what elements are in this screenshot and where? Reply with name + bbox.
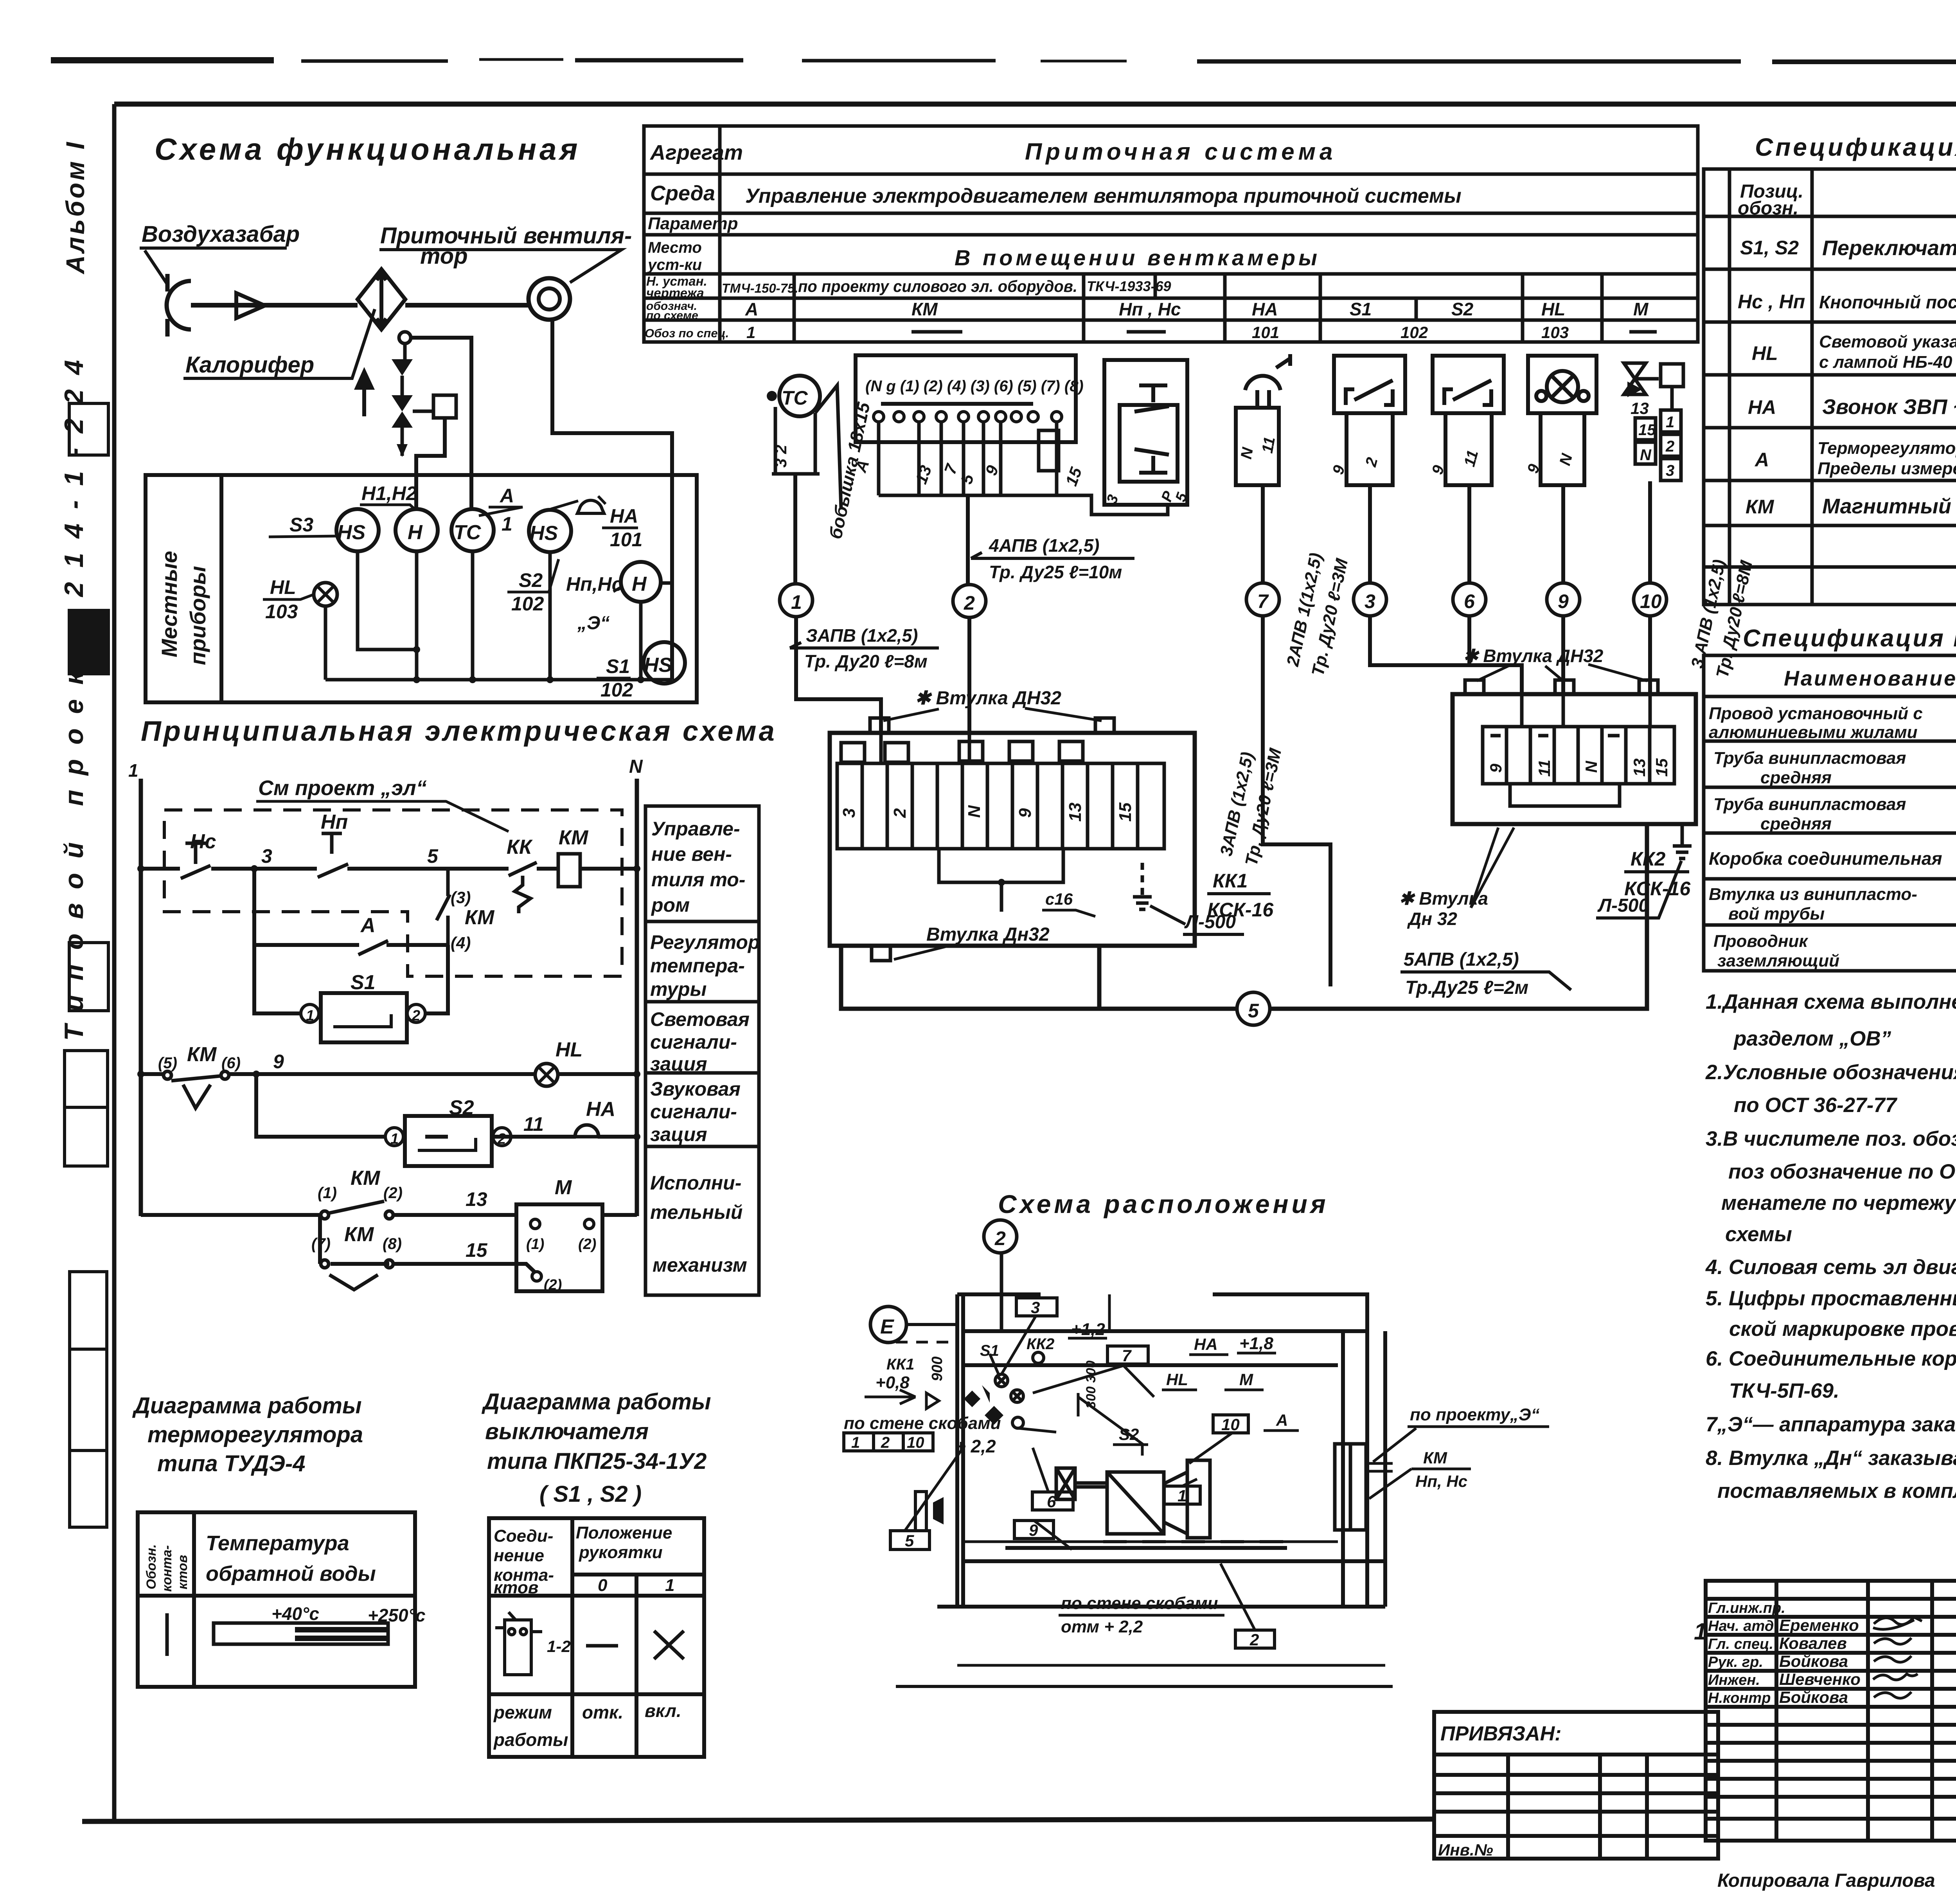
svg-text:Обозн.: Обозн. bbox=[144, 1544, 159, 1589]
svg-text:НА: НА bbox=[610, 505, 638, 527]
svg-text:15: 15 bbox=[1638, 421, 1656, 439]
dashed wall line bbox=[896, 1341, 957, 1344]
svg-text:Бойкова: Бойкова bbox=[1779, 1688, 1848, 1706]
instrument TC bbox=[451, 509, 494, 551]
svg-text:1: 1 bbox=[502, 513, 512, 535]
svg-text:Втулка Дн32: Втулка Дн32 bbox=[926, 924, 1050, 945]
svg-text:2: 2 bbox=[497, 1131, 506, 1147]
plan equipment: fan unit bbox=[1075, 1460, 1210, 1538]
svg-text:Ковалев: Ковалев bbox=[1779, 1634, 1847, 1652]
svg-text:туры: туры bbox=[650, 978, 707, 1000]
ground symbol KK2 bbox=[1673, 824, 1692, 858]
svg-text:чертежа: чертежа bbox=[646, 286, 704, 300]
svg-text:по проекту силового эл. оборуд: по проекту силового эл. оборудов. bbox=[798, 277, 1077, 295]
svg-text:КМ: КМ bbox=[559, 826, 589, 849]
svg-text:зация: зация bbox=[650, 1123, 707, 1145]
svg-text:3: 3 bbox=[261, 845, 272, 867]
fan wire bbox=[552, 320, 672, 680]
svg-text:Переключатель ПКП 25-34-1У2: Переключатель ПКП 25-34-1У2 bbox=[1822, 236, 1956, 260]
svg-text:конта-: конта- bbox=[160, 1545, 174, 1592]
boxed callout 2 bbox=[1235, 1630, 1275, 1648]
svg-text:КМ: КМ bbox=[465, 906, 495, 929]
signature squiggles bbox=[1873, 1617, 1922, 1698]
svg-text:См проект „эл“: См проект „эл“ bbox=[258, 776, 427, 800]
svg-text:1: 1 bbox=[746, 323, 755, 342]
svg-text:Бойкова: Бойкова bbox=[1779, 1652, 1848, 1670]
svg-text:Пределы измерения 0-250°с т: Пределы измерения 0-250°с типаТУДЭ-4 bbox=[1818, 459, 1956, 478]
svg-text:101: 101 bbox=[1252, 323, 1279, 342]
svg-text:(2): (2) bbox=[383, 1184, 403, 1202]
svg-text:нение: нение bbox=[494, 1546, 544, 1565]
svg-text:Управле-: Управле- bbox=[651, 818, 740, 840]
svg-text:по ОСТ 36-27-77: по ОСТ 36-27-77 bbox=[1734, 1094, 1898, 1117]
svg-text:Магнитный пускатель: Магнитный пускатель bbox=[1822, 495, 1956, 518]
svg-text:H1,H2: H1,H2 bbox=[361, 482, 417, 504]
svg-text:Нп, Нс: Нп, Нс bbox=[1415, 1472, 1467, 1490]
circled 2 bbox=[953, 585, 986, 617]
label Приточный вентилятор bbox=[379, 223, 632, 283]
svg-text:4АПВ (1х2,5): 4АПВ (1х2,5) bbox=[989, 535, 1100, 556]
walls bbox=[937, 1294, 1385, 1665]
svg-text:А: А bbox=[745, 299, 758, 319]
svg-text:А: А bbox=[499, 485, 514, 507]
sensor TC bbox=[779, 376, 820, 416]
svg-text:Местные: Местные bbox=[157, 551, 182, 657]
svg-text:НА: НА bbox=[1252, 299, 1278, 319]
pushbutton station box bbox=[1104, 360, 1187, 505]
svg-text:H: H bbox=[408, 521, 423, 544]
svg-text:11: 11 bbox=[1259, 436, 1279, 455]
svg-text:4. Силовая сеть эл двигателя: 4. Силовая сеть эл двигателя вентилятора… bbox=[1705, 1256, 1956, 1279]
check valve triangle bbox=[392, 359, 413, 376]
svg-text:5: 5 bbox=[427, 845, 439, 867]
svg-text:Световая: Световая bbox=[650, 1008, 750, 1030]
svg-text:9: 9 bbox=[273, 1051, 284, 1073]
svg-text:Регулятор: Регулятор bbox=[650, 931, 760, 953]
svg-text:3: 3 bbox=[1031, 1298, 1040, 1317]
svg-text:ТКЧ-1933-69: ТКЧ-1933-69 bbox=[1087, 278, 1171, 294]
svg-text:3.В числителе поз. обозначени: 3.В числителе поз. обозначения средств а… bbox=[1706, 1127, 1956, 1150]
svg-text:102: 102 bbox=[1400, 323, 1428, 342]
svg-text:Коробка соединительная: Коробка соединительная bbox=[1709, 848, 1942, 869]
svg-text:Температура: Температура bbox=[206, 1531, 349, 1555]
svg-text:типа ТУДЭ-4: типа ТУДЭ-4 bbox=[157, 1451, 305, 1476]
node 9 bbox=[253, 1071, 260, 1078]
svg-text:ктов: ктов bbox=[494, 1578, 538, 1597]
svg-text:по схеме: по схеме bbox=[646, 309, 698, 322]
svg-text:сигнали-: сигнали- bbox=[650, 1101, 737, 1123]
boxed callout 1 bbox=[1164, 1486, 1200, 1504]
control valve bowtie bbox=[392, 395, 413, 428]
svg-text:Место: Место bbox=[648, 239, 702, 256]
svg-text:N: N bbox=[629, 756, 643, 777]
svg-text:( S1 , S2 ): ( S1 , S2 ) bbox=[539, 1481, 642, 1507]
function labels column bbox=[645, 806, 759, 1295]
valve actuator bbox=[433, 395, 456, 418]
svg-text:по проекту„Э“: по проекту„Э“ bbox=[1410, 1405, 1540, 1424]
svg-text:КМ: КМ bbox=[344, 1223, 374, 1246]
box Местные приборы bbox=[146, 475, 697, 702]
switch S1 device box bbox=[1334, 356, 1405, 485]
bushing rects bbox=[870, 718, 1114, 961]
svg-text:М: М bbox=[1239, 1370, 1253, 1389]
svg-text:ТС: ТС bbox=[454, 521, 482, 544]
axis circle E bbox=[870, 1307, 906, 1343]
svg-text:(1): (1) bbox=[526, 1236, 544, 1253]
rung 1 wire bbox=[141, 867, 637, 871]
svg-text:1: 1 bbox=[390, 1131, 399, 1147]
svg-text:13: 13 bbox=[1631, 399, 1649, 418]
svg-text:(5): (5) bbox=[158, 1055, 177, 1072]
svg-text:КК2: КК2 bbox=[1027, 1335, 1054, 1353]
svg-text:S1, S2: S1, S2 bbox=[1740, 237, 1799, 259]
svg-text:по стене скобами: по стене скобами bbox=[844, 1414, 1001, 1433]
svg-text:НА: НА bbox=[586, 1098, 615, 1121]
jumper below strip bbox=[939, 849, 1063, 882]
svg-text:сигнали-: сигнали- bbox=[650, 1031, 737, 1053]
svg-text:Инжен.: Инжен. bbox=[1708, 1672, 1760, 1688]
terminal strip inside KK1 bbox=[837, 741, 1164, 849]
svg-text:ктов: ктов bbox=[175, 1555, 190, 1589]
svg-text:1: 1 bbox=[1666, 414, 1674, 431]
svg-text:разделом „ОВ”: разделом „ОВ” bbox=[1733, 1027, 1891, 1050]
left power rail bbox=[139, 779, 143, 1216]
svg-text:103: 103 bbox=[265, 601, 298, 623]
instrument HS (S3) bbox=[336, 509, 379, 551]
svg-text:ТМЧ-150-75.: ТМЧ-150-75. bbox=[722, 281, 798, 295]
instrument HS (S1) bbox=[644, 642, 685, 684]
svg-text:Положение: Положение bbox=[576, 1523, 672, 1542]
svg-text:(7): (7) bbox=[311, 1235, 331, 1253]
svg-text:с16: с16 bbox=[1045, 890, 1073, 908]
svg-text:КМ: КМ bbox=[351, 1167, 381, 1190]
svg-text:1: 1 bbox=[1178, 1486, 1187, 1505]
svg-text:А: А bbox=[1276, 1411, 1288, 1429]
wires from circles 3,6,9,10 down bbox=[1263, 616, 1650, 986]
svg-text:15: 15 bbox=[1116, 803, 1135, 822]
rung 2 bbox=[141, 1072, 637, 1076]
instrument wires bbox=[325, 551, 672, 680]
svg-text:Исполни-: Исполни- bbox=[650, 1172, 741, 1194]
svg-text:Терморегулятор дилатометричес: Терморегулятор дилатометрический bbox=[1818, 439, 1956, 458]
switch S2 device box bbox=[1433, 356, 1504, 485]
svg-text:(2): (2) bbox=[578, 1236, 596, 1253]
plan equipment: heater box bbox=[1056, 1468, 1075, 1499]
terminal strip KK2 bbox=[1483, 694, 1674, 806]
boxed callout 9 bbox=[1014, 1521, 1054, 1539]
valve drain line bbox=[401, 428, 404, 456]
svg-text:2.Условные обозначения в сх: 2.Условные обозначения в схемах автомати… bbox=[1705, 1061, 1956, 1084]
bottom wire run with circled 5 bbox=[841, 824, 1647, 1009]
circled 5 bbox=[1237, 992, 1270, 1025]
svg-text:М: М bbox=[1633, 299, 1649, 319]
valve stem circle bbox=[399, 332, 411, 344]
main title block bbox=[1706, 1581, 1956, 1841]
svg-text:7: 7 bbox=[1257, 590, 1269, 612]
svg-text:7: 7 bbox=[1122, 1346, 1132, 1365]
svg-text:(2): (2) bbox=[544, 1277, 562, 1293]
svg-text:КМ: КМ bbox=[1746, 496, 1774, 518]
svg-text:1: 1 bbox=[128, 760, 138, 781]
svg-text:работы: работы bbox=[493, 1729, 568, 1750]
svg-text:Звуковая: Звуковая bbox=[650, 1078, 741, 1100]
wire stem to TC drop bbox=[411, 338, 471, 509]
svg-text:Нп: Нп bbox=[321, 811, 348, 833]
svg-text:6: 6 bbox=[1464, 590, 1475, 612]
svg-text:0: 0 bbox=[598, 1576, 608, 1595]
left margin fold boxes bbox=[65, 403, 108, 1527]
svg-text:5АПВ (1х2,5): 5АПВ (1х2,5) bbox=[1404, 949, 1519, 970]
svg-text:1: 1 bbox=[1694, 1618, 1707, 1645]
svg-text:N: N bbox=[965, 805, 984, 818]
svg-text:Звонок ЗВП ~220 В: Звонок ЗВП ~220 В bbox=[1822, 395, 1956, 419]
svg-text:(6): (6) bbox=[221, 1055, 241, 1072]
svg-text:Агрегат: Агрегат bbox=[649, 141, 743, 164]
svg-text:ТС: ТС bbox=[782, 387, 808, 409]
svg-text:выключателя: выключателя bbox=[485, 1419, 649, 1444]
svg-text:13: 13 bbox=[1630, 758, 1649, 777]
svg-text:2: 2 bbox=[412, 1008, 420, 1024]
svg-text:13: 13 bbox=[1066, 803, 1085, 822]
svg-text:„Э“: „Э“ bbox=[577, 613, 610, 633]
svg-text:+250°с: +250°с bbox=[368, 1605, 426, 1625]
plan equipment: intake bbox=[933, 1497, 944, 1524]
svg-text:Схема расположения: Схема расположения bbox=[998, 1190, 1329, 1218]
valve with actuator (top right) bbox=[1624, 363, 1683, 410]
svg-text:N: N bbox=[1582, 760, 1600, 773]
svg-text:900: 900 bbox=[929, 1357, 946, 1381]
svg-text:1.Данная схема выполнена на: 1.Данная схема выполнена на основании за… bbox=[1706, 990, 1956, 1013]
svg-text:Управление электродвигателем: Управление электродвигателем вентилятора… bbox=[745, 185, 1462, 207]
svg-text:алюминиевыми жилами: алюминиевыми жилами bbox=[1709, 723, 1918, 742]
svg-text:КМ: КМ bbox=[187, 1043, 217, 1066]
svg-text:Приточная система: Приточная система bbox=[1025, 139, 1336, 165]
svg-text:КСК-16: КСК-16 bbox=[1207, 899, 1274, 921]
svg-text:менателе по чертежу принцип: менателе по чертежу принципиальной элект… bbox=[1721, 1191, 1956, 1215]
svg-text:2: 2 bbox=[1665, 438, 1674, 455]
svg-text:10: 10 bbox=[1640, 590, 1662, 612]
svg-text:вой трубы: вой трубы bbox=[1728, 904, 1825, 923]
svg-text:S1: S1 bbox=[606, 655, 630, 677]
svg-text:1: 1 bbox=[851, 1434, 860, 1451]
svg-text:Дн 32: Дн 32 bbox=[1407, 909, 1457, 929]
svg-text:уст-ки: уст-ки bbox=[647, 256, 702, 274]
svg-text:+0,8: +0,8 bbox=[876, 1373, 910, 1392]
riser wire circled 2 above plan bbox=[1000, 1253, 1003, 1331]
terminal box КМ panel bbox=[856, 355, 1076, 442]
bell device bbox=[1236, 354, 1290, 485]
svg-text:КМ: КМ bbox=[1423, 1449, 1447, 1467]
circled 3 bbox=[1354, 583, 1386, 616]
svg-text:Обоз по спец.: Обоз по спец. bbox=[645, 326, 729, 340]
svg-text:+40°с: +40°с bbox=[271, 1603, 319, 1624]
svg-text:Альбом I: Альбом I bbox=[61, 140, 90, 275]
svg-text:Калорифер: Калорифер bbox=[185, 352, 314, 378]
svg-text:Спецификация на монтажные м: Спецификация на монтажные материалы bbox=[1743, 625, 1956, 652]
svg-text:отк.: отк. bbox=[582, 1702, 623, 1722]
svg-text:ЗАПВ (1х2,5): ЗАПВ (1х2,5) bbox=[806, 625, 918, 646]
svg-text:Соеди-: Соеди- bbox=[494, 1526, 553, 1546]
svg-text:Нс , Нп: Нс , Нп bbox=[1738, 291, 1805, 313]
svg-text:Тр.Ду25 ℓ=2м: Тр.Ду25 ℓ=2м bbox=[1405, 977, 1528, 998]
svg-text:HS: HS bbox=[337, 521, 366, 544]
svg-text:2: 2 bbox=[1249, 1630, 1259, 1649]
svg-text:Нп , Нс: Нп , Нс bbox=[1119, 299, 1181, 319]
svg-text:Нач. атд: Нач. атд bbox=[1708, 1618, 1774, 1634]
svg-text:Копировала Гаврилова: Копировала Гаврилова bbox=[1717, 1870, 1935, 1891]
svg-text:Труба винипластовая: Труба винипластовая bbox=[1713, 749, 1906, 768]
svg-text:9: 9 bbox=[1487, 763, 1505, 773]
svg-text:+1,2: +1,2 bbox=[1071, 1320, 1105, 1339]
svg-text:заземляющий: заземляющий bbox=[1717, 951, 1839, 970]
svg-text:КК1: КК1 bbox=[1213, 870, 1248, 892]
svg-text:(8): (8) bbox=[383, 1235, 402, 1253]
svg-text:средняя: средняя bbox=[1760, 814, 1832, 833]
svg-text:Е: Е bbox=[880, 1316, 894, 1338]
small triangle marker left bbox=[926, 1393, 939, 1409]
svg-text:ПРИВЯЗАН:: ПРИВЯЗАН: bbox=[1440, 1722, 1562, 1745]
node 3 bbox=[251, 865, 258, 872]
svg-text:средняя: средняя bbox=[1760, 768, 1832, 787]
svg-text:+ 2,2: + 2,2 bbox=[955, 1436, 996, 1456]
ground symbol KK1 bbox=[1133, 863, 1152, 909]
svg-text:HL: HL bbox=[270, 576, 296, 598]
svg-text:М: М bbox=[555, 1176, 572, 1199]
svg-text:ТКЧ-5П-69.: ТКЧ-5П-69. bbox=[1729, 1379, 1839, 1402]
fan double circle bbox=[529, 278, 570, 320]
svg-text:тор: тор bbox=[420, 243, 468, 269]
svg-text:9: 9 bbox=[1016, 808, 1035, 818]
svg-text:102: 102 bbox=[600, 679, 633, 701]
svg-text:S2: S2 bbox=[1451, 299, 1474, 319]
svg-text:А: А bbox=[1754, 449, 1769, 471]
boxed callout 6 bbox=[1032, 1492, 1073, 1510]
svg-text:5. Цифры проставленные в ско: 5. Цифры проставленные в скобках, соотве… bbox=[1706, 1287, 1956, 1310]
svg-text:поз обозначение по ОСТ 36-2: поз обозначение по ОСТ 36-27-77 или по Г… bbox=[1728, 1160, 1956, 1183]
svg-text:режим: режим bbox=[493, 1702, 552, 1722]
plan leader lines bbox=[905, 1316, 1393, 1630]
svg-text:Параметр: Параметр bbox=[648, 214, 738, 233]
svg-text:Шевченко: Шевченко bbox=[1779, 1670, 1861, 1688]
wire 1 to junction box bbox=[796, 617, 881, 733]
label Калорифер bbox=[183, 309, 375, 378]
svg-text:H: H bbox=[632, 573, 647, 596]
привязан box bbox=[1434, 1712, 1718, 1859]
svg-text:КК: КК bbox=[507, 836, 533, 858]
svg-text:по стене скобами: по стене скобами bbox=[1061, 1594, 1218, 1613]
svg-text:Труба винипластовая: Труба винипластовая bbox=[1713, 795, 1906, 814]
svg-text:11: 11 bbox=[1535, 759, 1553, 777]
svg-text:А: А bbox=[360, 914, 376, 937]
svg-text:HL: HL bbox=[1541, 299, 1565, 319]
svg-text:зация: зация bbox=[650, 1053, 707, 1075]
svg-text:9: 9 bbox=[1558, 590, 1569, 612]
svg-text:обозн.: обозн. bbox=[1738, 198, 1798, 219]
plan sensors cluster bbox=[995, 1352, 1044, 1428]
svg-text:(1): (1) bbox=[318, 1184, 337, 1202]
svg-text:схемы: схемы bbox=[1725, 1223, 1792, 1246]
svg-text:поставляемых в комплекте с: поставляемых в комплекте с коробкой КСК bbox=[1717, 1479, 1956, 1503]
svg-text:темпера-: темпера- bbox=[650, 955, 745, 977]
svg-text:Тр. Ду20 ℓ=8м: Тр. Ду20 ℓ=8м bbox=[804, 651, 928, 671]
svg-text:типа ПКП25-34-1У2: типа ПКП25-34-1У2 bbox=[487, 1449, 707, 1474]
svg-text:S1: S1 bbox=[351, 971, 376, 994]
filter triangle bbox=[236, 293, 265, 318]
svg-text:8. Втулка „Дн“ заказывается: 8. Втулка „Дн“ заказывается в проекте вз… bbox=[1706, 1447, 1956, 1470]
instrument HS (S2) bbox=[529, 510, 571, 552]
wire 2 down bbox=[966, 495, 970, 583]
instrument H (Нп,Нс) bbox=[621, 562, 661, 602]
branch A rung bbox=[254, 869, 448, 945]
svg-text:102: 102 bbox=[511, 593, 544, 615]
svg-text:(4): (4) bbox=[451, 934, 471, 952]
svg-text:ром: ром bbox=[651, 894, 690, 916]
svg-text:HL: HL bbox=[1752, 342, 1778, 364]
air intake bellmouth bbox=[167, 281, 191, 329]
svg-text:ской маркировке проводов.: ской маркировке проводов. bbox=[1729, 1317, 1956, 1341]
svg-text:300 300: 300 300 bbox=[1084, 1361, 1098, 1409]
svg-text:15: 15 bbox=[466, 1239, 488, 1261]
circled 10 bbox=[1634, 583, 1667, 616]
svg-text:отм + 2,2: отм + 2,2 bbox=[1061, 1617, 1143, 1636]
svg-text:КМ: КМ bbox=[911, 299, 938, 319]
svg-text:103: 103 bbox=[1541, 323, 1569, 342]
svg-text:3: 3 bbox=[1666, 462, 1674, 479]
svg-text:Спецификация местной аппарат: Спецификация местной аппаратуры bbox=[1755, 133, 1956, 161]
svg-text:Инв.№: Инв.№ bbox=[1438, 1841, 1493, 1859]
svg-text:2: 2 bbox=[890, 808, 910, 818]
svg-text:10: 10 bbox=[1221, 1415, 1240, 1434]
label Воздухазабар bbox=[140, 221, 300, 283]
instrument H (H1,H2) bbox=[396, 509, 438, 551]
svg-text:Л-500: Л-500 bbox=[1597, 895, 1649, 916]
rung 4 motor bbox=[141, 1213, 637, 1217]
svg-text:КК1: КК1 bbox=[886, 1356, 914, 1373]
svg-text:Световой указатель типа СУП-: Световой указатель типа СУП-М bbox=[1819, 332, 1956, 351]
svg-text:Схема функциональная: Схема функциональная bbox=[155, 132, 581, 166]
svg-text:5: 5 bbox=[905, 1531, 914, 1550]
svg-text:Диаграмма работы: Диаграмма работы bbox=[132, 1393, 362, 1418]
circled 6 bbox=[1453, 583, 1486, 616]
svg-text:S3: S3 bbox=[289, 514, 313, 536]
S1 limit switch box bbox=[254, 945, 300, 1013]
boxed callout 7 bbox=[1107, 1346, 1148, 1364]
heater diamond bbox=[358, 269, 405, 329]
svg-text:HL: HL bbox=[1166, 1370, 1188, 1389]
svg-text:НА: НА bbox=[1748, 396, 1776, 418]
svg-text:рукоятки: рукоятки bbox=[579, 1543, 663, 1562]
svg-text:тиля то-: тиля то- bbox=[651, 869, 745, 891]
svg-text:Гл.инж.пр.: Гл.инж.пр. bbox=[1708, 1600, 1785, 1616]
dashed enclosure bbox=[164, 810, 622, 976]
svg-text:3: 3 bbox=[840, 808, 859, 818]
actuator wire to H bbox=[416, 418, 445, 509]
svg-text:Наименование: Наименование bbox=[1784, 667, 1956, 690]
boxed callout 5 bbox=[890, 1531, 929, 1549]
svg-text:1: 1 bbox=[791, 591, 802, 613]
svg-text:НА: НА bbox=[1194, 1335, 1218, 1353]
svg-text:Принципиальная электрическая: Принципиальная электрическая схема bbox=[141, 716, 777, 747]
svg-text:3: 3 bbox=[1365, 590, 1375, 612]
circled 1 bbox=[780, 584, 813, 617]
svg-text:6. Соединительные коробки ти: 6. Соединительные коробки типа КСК устан… bbox=[1706, 1347, 1956, 1370]
svg-text:Гл. спец.: Гл. спец. bbox=[1708, 1636, 1773, 1652]
duct dashes on floor bbox=[1103, 1540, 1287, 1543]
svg-text:тельный: тельный bbox=[650, 1201, 742, 1223]
svg-text:механизм: механизм bbox=[653, 1254, 747, 1276]
svg-text:HS: HS bbox=[644, 654, 672, 677]
svg-text:Рук. гр.: Рук. гр. bbox=[1708, 1654, 1763, 1670]
